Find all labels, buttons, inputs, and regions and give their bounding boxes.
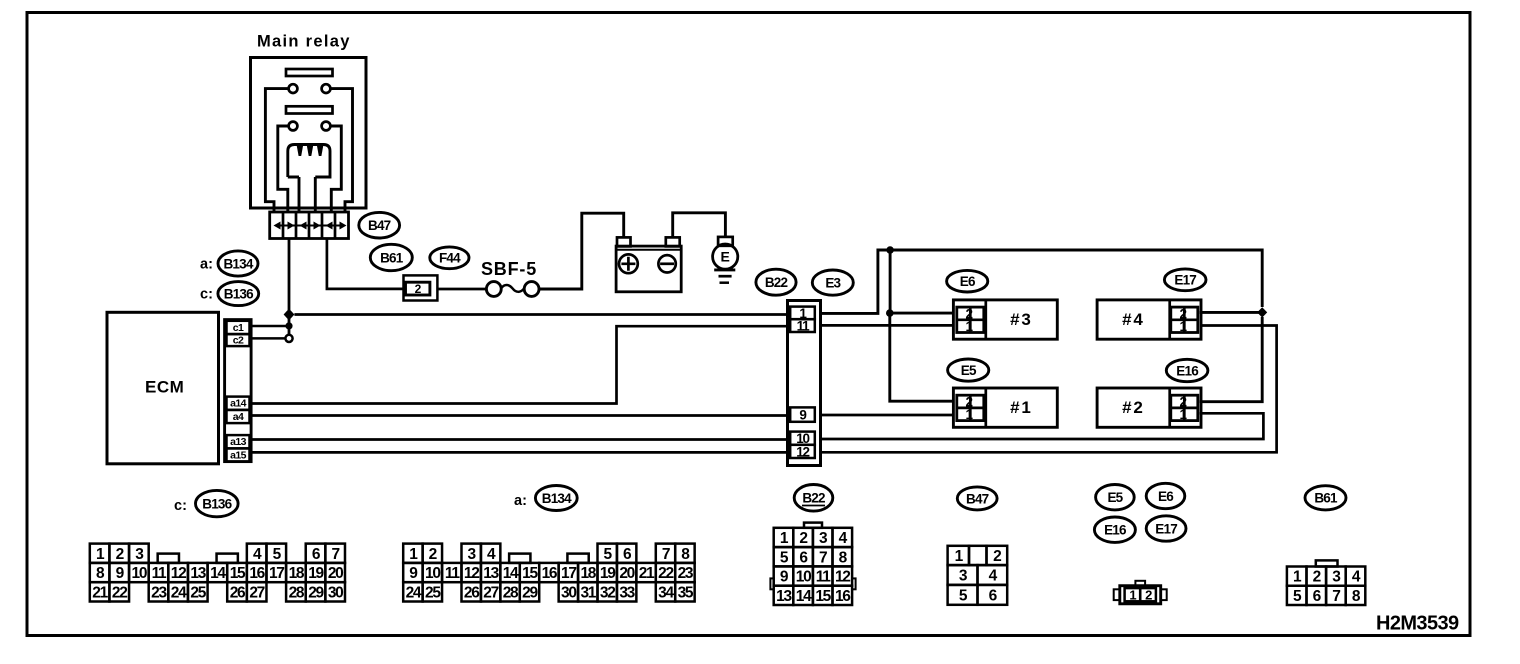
svg-text:B61: B61 (380, 250, 404, 265)
relay connector block B47 (270, 212, 349, 239)
svg-text:19: 19 (308, 565, 324, 582)
svg-text:27: 27 (483, 584, 498, 601)
ECM pin a14 (227, 397, 250, 410)
svg-text:7: 7 (662, 546, 670, 563)
connector label B136 (218, 282, 259, 306)
svg-text:16: 16 (542, 565, 558, 582)
svg-text:32: 32 (600, 584, 615, 601)
svg-text:29: 29 (308, 584, 324, 601)
svg-text:SBF-5: SBF-5 (481, 259, 537, 279)
svg-text:17: 17 (561, 565, 576, 582)
svg-text:9: 9 (799, 407, 806, 422)
svg-text:7: 7 (819, 549, 827, 566)
wire SBF-5 to battery plus (538, 213, 623, 289)
connector pin diagram E5/E6/E16/E17 (1120, 586, 1161, 604)
svg-text:14: 14 (796, 588, 812, 605)
wire junction A to connector B22 pin 1 (294, 313, 787, 316)
injector #1 (953, 388, 1057, 427)
connector pin cell 11 (790, 319, 815, 332)
svg-text:10: 10 (425, 565, 440, 582)
svg-text:c1: c1 (233, 322, 244, 334)
battery minus terminal symbol (658, 255, 675, 272)
connector label B134 (bottom) (535, 486, 577, 511)
wire B22 pin 11 to injector #3 pin 1 (821, 324, 954, 327)
svg-text:21: 21 (92, 584, 108, 601)
svg-text:25: 25 (190, 584, 206, 601)
main relay K1 box (251, 58, 367, 209)
connector pin diagram B22 (774, 528, 794, 547)
relay internal wire from contact 2 left (278, 126, 289, 212)
ground symbol (714, 268, 735, 271)
ECM pin a15 (227, 448, 250, 461)
injector #4 (1097, 300, 1201, 339)
svg-text:B22: B22 (765, 275, 788, 290)
svg-text:18: 18 (580, 565, 596, 582)
svg-text:17: 17 (269, 565, 284, 582)
wire ECM a4 to connector B22 pin 9 (251, 414, 787, 417)
connector label E5 (948, 359, 989, 381)
ECM connector pin strip (225, 320, 252, 462)
svg-text:#1: #1 (1010, 398, 1033, 417)
svg-text:B47: B47 (966, 491, 989, 506)
svg-text:12: 12 (796, 444, 809, 459)
svg-text:H2M3539: H2M3539 (1376, 613, 1459, 635)
svg-text:11: 11 (797, 318, 810, 333)
svg-text:a14: a14 (230, 398, 246, 410)
svg-text:B134: B134 (223, 256, 253, 271)
svg-text:10: 10 (796, 569, 811, 586)
connector label F44 (430, 247, 469, 269)
node junction diamond A (284, 309, 295, 321)
wire fuse to SBF-5 (437, 288, 487, 291)
svg-text:2: 2 (799, 530, 807, 547)
svg-text:Main relay: Main relay (257, 33, 351, 51)
ECM pin c2 (227, 334, 250, 346)
connector label E17 (1164, 269, 1206, 291)
connector label E16 (1166, 359, 1208, 381)
injector #1 connector grid pins 2/1 (957, 395, 984, 420)
svg-text:E5: E5 (1107, 490, 1123, 505)
connector label E16 (bottom) (1094, 517, 1135, 542)
svg-text:2: 2 (429, 546, 437, 563)
connector label E6 (947, 270, 988, 292)
wire junction A to dot B (288, 318, 291, 336)
wire to injector #3 pin 2 (890, 312, 954, 315)
svg-text:E16: E16 (1104, 523, 1127, 538)
svg-text:14: 14 (503, 565, 519, 582)
svg-text:B22: B22 (802, 491, 825, 506)
B61 tab (1316, 560, 1338, 566)
svg-text:16: 16 (835, 588, 851, 605)
relay internal wire from contact 1 right (330, 89, 352, 212)
svg-text:23: 23 (678, 565, 694, 582)
connector pin diagram B61 (1287, 567, 1307, 586)
injector #4 connector grid pins 2/1 (1171, 307, 1198, 332)
relay coil stem wires (298, 177, 301, 212)
B136 index tabs (158, 554, 179, 563)
wire top bus down to injector feeds (889, 250, 892, 310)
svg-text:E6: E6 (960, 274, 976, 289)
node open terminal C (to ECM c2) (285, 335, 292, 342)
svg-text:E5: E5 (961, 363, 977, 378)
svg-text:13: 13 (483, 565, 499, 582)
svg-text:13: 13 (776, 588, 792, 605)
svg-text:35: 35 (678, 584, 694, 601)
node junction diamond E (right) (1257, 307, 1267, 317)
svg-text:15: 15 (522, 565, 538, 582)
connector pin diagram B47 (948, 546, 969, 565)
connector label E3 (812, 270, 853, 295)
svg-text:E6: E6 (1158, 489, 1174, 504)
fuse F44 "2" (404, 275, 438, 300)
svg-text:33: 33 (619, 584, 635, 601)
svg-text:c:: c: (200, 287, 213, 303)
svg-text:B136: B136 (202, 496, 232, 511)
ECM pin a13 (227, 435, 250, 448)
relay contact bar 2 (286, 106, 333, 113)
connector pin cell 9 (790, 407, 815, 421)
B22 tabs (804, 523, 822, 528)
svg-text:7: 7 (332, 546, 340, 563)
connector label E6 (bottom) (1146, 483, 1185, 508)
node junction dot on top bus (886, 246, 894, 254)
svg-text:a15: a15 (230, 449, 246, 461)
connector pin cell 10 (790, 432, 815, 445)
svg-text:12: 12 (171, 565, 186, 582)
injector #3 (953, 300, 1057, 339)
svg-text:F44: F44 (439, 251, 461, 266)
svg-text:25: 25 (425, 584, 441, 601)
connector pin cell 12 (790, 445, 815, 458)
wire relay pin to junction A (288, 239, 291, 311)
svg-text:20: 20 (619, 565, 634, 582)
svg-text:11: 11 (152, 565, 167, 582)
svg-text:30: 30 (328, 584, 343, 601)
svg-text:a:: a: (200, 257, 213, 273)
svg-text:28: 28 (503, 584, 519, 601)
relay coil (288, 145, 330, 178)
svg-text:26: 26 (230, 584, 246, 601)
wire to injector #4 pin 2 (1199, 311, 1262, 314)
svg-text:2: 2 (415, 282, 422, 296)
connector B22/E3 body (788, 301, 821, 466)
wire ECM c1 to junction dot B (251, 325, 289, 328)
svg-text:11: 11 (816, 569, 831, 586)
connector label B47 (relay) (359, 212, 400, 238)
svg-text:B47: B47 (368, 218, 391, 233)
wire relay pin to fuse (327, 239, 404, 289)
connector pin cell 1 (790, 307, 815, 320)
node junction dot D (886, 309, 894, 317)
connector label B134 (218, 251, 258, 276)
relay internal wire from contact 2 right (330, 126, 341, 212)
wire ECM a14 to connector B22 pin 11 (step) (251, 326, 787, 403)
svg-text:22: 22 (658, 565, 673, 582)
svg-text:31: 31 (580, 584, 596, 601)
connector label B22 (harness) (756, 269, 796, 295)
svg-text:15: 15 (815, 588, 831, 605)
wire ECM c2 to open terminal C (251, 337, 285, 340)
svg-text:34: 34 (658, 584, 674, 601)
svg-text:1: 1 (966, 319, 974, 334)
connector pin diagram B134 (403, 563, 422, 582)
connector label B47 (bottom) (957, 487, 997, 510)
svg-text:7: 7 (1332, 588, 1340, 605)
wire junction E down to injector #2 pin 2 (1199, 317, 1262, 402)
svg-text:E17: E17 (1155, 521, 1177, 536)
svg-text:B61: B61 (1314, 491, 1338, 506)
svg-text:2: 2 (1313, 569, 1321, 586)
svg-text:1: 1 (966, 407, 974, 422)
svg-text:10: 10 (132, 565, 147, 582)
svg-text:1: 1 (1180, 319, 1188, 334)
connector label B22 (bottom) (794, 485, 833, 512)
node junction dot B (to ECM c1) (285, 322, 292, 329)
svg-text:E: E (721, 249, 730, 265)
svg-text:15: 15 (230, 565, 246, 582)
wire B22 pin1 out to top bus (821, 250, 1263, 313)
battery (617, 237, 631, 246)
svg-text:a:: a: (514, 493, 527, 509)
connector pin diagram B136 (90, 563, 110, 582)
svg-text:27: 27 (249, 584, 264, 601)
svg-text:11: 11 (445, 565, 460, 582)
svg-text:13: 13 (190, 565, 206, 582)
svg-text:14: 14 (210, 565, 226, 582)
relay contact bar 1 (286, 69, 333, 76)
wire ECM a13 to connector B22 pin 10 (251, 438, 787, 441)
wire battery minus to ground E (673, 213, 726, 238)
svg-text:16: 16 (249, 565, 265, 582)
svg-text:24: 24 (406, 584, 422, 601)
svg-text:18: 18 (289, 565, 305, 582)
svg-text:26: 26 (464, 584, 480, 601)
svg-text:2: 2 (116, 546, 124, 563)
svg-text:B134: B134 (542, 491, 572, 506)
svg-text:a13: a13 (230, 436, 246, 448)
wire B22 pin 10 to injector #2 pin 1 (821, 413, 1264, 439)
injector #2 connector grid pins 2/1 (1171, 395, 1198, 420)
svg-text:2: 2 (993, 548, 1001, 565)
injector #3 connector grid pins 2/1 (957, 307, 984, 332)
svg-text:#3: #3 (1010, 310, 1033, 329)
svg-text:#2: #2 (1122, 398, 1145, 417)
svg-text:c2: c2 (233, 335, 244, 347)
svg-text:B136: B136 (224, 286, 254, 301)
svg-text:30: 30 (561, 584, 576, 601)
svg-text:12: 12 (835, 569, 850, 586)
connector label E17 (bottom) (1146, 516, 1186, 541)
svg-text:22: 22 (112, 584, 127, 601)
svg-text:28: 28 (289, 584, 305, 601)
svg-text:23: 23 (151, 584, 167, 601)
svg-text:1: 1 (1180, 407, 1188, 422)
svg-text:c:: c: (174, 498, 187, 514)
svg-text:20: 20 (328, 565, 343, 582)
svg-text:12: 12 (464, 565, 479, 582)
svg-text:E3: E3 (825, 275, 841, 290)
connector label E5 (bottom) (1096, 485, 1135, 510)
injector #2 (1097, 388, 1201, 427)
ground E terminal (718, 237, 733, 246)
svg-text:E16: E16 (1176, 363, 1199, 378)
svg-text:24: 24 (171, 584, 187, 601)
svg-text:ECM: ECM (145, 378, 184, 397)
wire B22 pin 9 to injector #1 pin 1 (821, 414, 954, 417)
svg-text:19: 19 (600, 565, 616, 582)
ECM box (107, 312, 219, 464)
svg-text:#4: #4 (1122, 310, 1145, 329)
wire junction D down to injector #1 pin 2 (890, 316, 954, 401)
battery plus terminal symbol (619, 254, 638, 273)
wire B22 pin 12 to injector #4 pin 1 (821, 326, 1277, 453)
fusible link SBF-5 (486, 282, 501, 297)
svg-text:29: 29 (522, 584, 538, 601)
relay connector terminal arrows (275, 225, 344, 227)
connector label B136 (bottom) (196, 490, 239, 516)
relay contact terminal circles row 2 (289, 122, 298, 131)
svg-text:E17: E17 (1174, 273, 1196, 288)
connector label B61 (bottom) (1305, 486, 1346, 510)
wire ECM a15 to connector B22 pin 12 (251, 451, 787, 454)
svg-text:a4: a4 (233, 411, 244, 423)
ECM pin a4 (227, 410, 250, 423)
relay contact terminal circles row 1 (289, 84, 298, 93)
ECM pin c1 (227, 321, 250, 334)
relay internal wire from contact 1 left (265, 89, 288, 212)
svg-text:21: 21 (639, 565, 655, 582)
B134 index tabs (509, 554, 530, 563)
connector label B61 (370, 244, 412, 270)
